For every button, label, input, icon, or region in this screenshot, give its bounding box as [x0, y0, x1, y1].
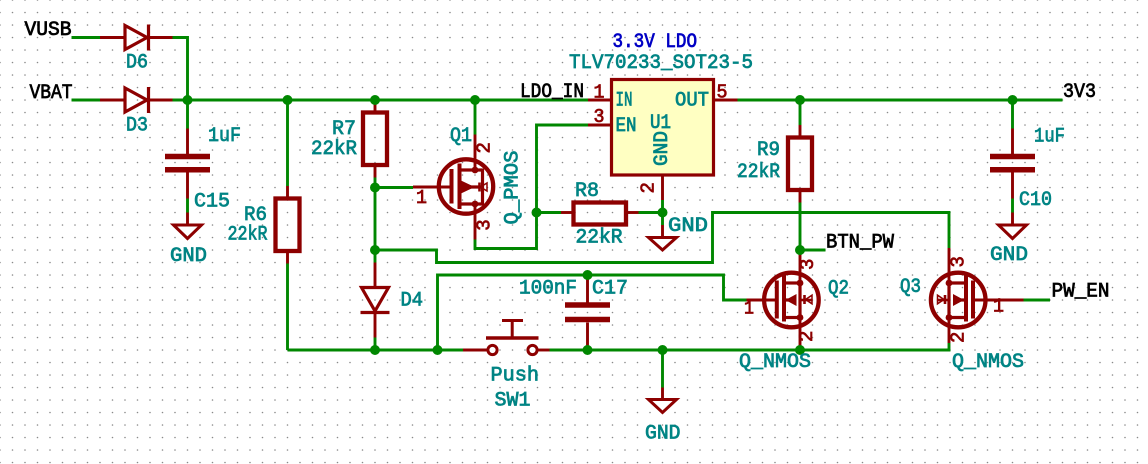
- svg-text:VUSB: VUSB: [25, 19, 72, 42]
- svg-text:BTN_PW: BTN_PW: [826, 232, 894, 255]
- svg-text:GND: GND: [990, 244, 1028, 267]
- svg-text:Q1: Q1: [450, 125, 472, 148]
- svg-text:1uF: 1uF: [208, 125, 241, 148]
- svg-text:D6: D6: [126, 52, 148, 75]
- svg-text:1uF: 1uF: [1034, 126, 1065, 149]
- svg-text:5: 5: [717, 82, 728, 104]
- svg-text:3V3: 3V3: [1063, 81, 1096, 104]
- svg-text:TLV70233_SOT23-5: TLV70233_SOT23-5: [569, 52, 753, 75]
- svg-text:100nF: 100nF: [519, 278, 577, 301]
- svg-text:1: 1: [594, 82, 605, 104]
- svg-text:EN: EN: [616, 115, 637, 138]
- svg-text:Q2: Q2: [828, 278, 849, 301]
- svg-text:1: 1: [416, 187, 427, 209]
- svg-text:2: 2: [474, 142, 496, 153]
- svg-text:R9: R9: [757, 139, 780, 162]
- svg-text:GND: GND: [645, 423, 681, 446]
- svg-text:Q_NMOS: Q_NMOS: [952, 351, 1024, 374]
- svg-text:2: 2: [948, 332, 970, 343]
- svg-text:3: 3: [948, 256, 970, 267]
- svg-text:22kR: 22kR: [311, 138, 357, 161]
- svg-text:1: 1: [744, 298, 754, 320]
- svg-text:GND: GND: [170, 245, 207, 268]
- svg-text:GND: GND: [668, 215, 708, 238]
- svg-text:2: 2: [638, 182, 660, 193]
- svg-text:Q_PMOS: Q_PMOS: [502, 151, 525, 225]
- svg-text:22kR: 22kR: [228, 224, 268, 247]
- svg-text:C10: C10: [1019, 189, 1052, 212]
- svg-text:3: 3: [797, 259, 819, 270]
- svg-text:Push: Push: [491, 365, 540, 388]
- svg-text:GND: GND: [651, 131, 674, 166]
- svg-text:LDO_IN: LDO_IN: [520, 81, 584, 104]
- svg-text:Q_NMOS: Q_NMOS: [739, 351, 811, 374]
- svg-text:D3: D3: [126, 115, 148, 138]
- svg-text:VBAT: VBAT: [30, 82, 73, 105]
- svg-text:Q3: Q3: [900, 276, 921, 299]
- svg-text:C15: C15: [194, 191, 230, 214]
- svg-text:22kR: 22kR: [576, 227, 623, 250]
- svg-text:3.3V LDO: 3.3V LDO: [613, 31, 698, 54]
- svg-text:D4: D4: [401, 290, 424, 313]
- svg-text:3: 3: [474, 219, 496, 230]
- svg-text:3: 3: [594, 106, 605, 128]
- svg-text:SW1: SW1: [495, 390, 531, 413]
- svg-text:1: 1: [993, 296, 1004, 318]
- svg-text:C17: C17: [592, 278, 628, 301]
- svg-text:IN: IN: [616, 90, 633, 113]
- svg-text:R8: R8: [575, 180, 599, 203]
- svg-text:2: 2: [796, 331, 818, 342]
- svg-text:OUT: OUT: [675, 90, 709, 113]
- svg-text:22kR: 22kR: [737, 161, 780, 184]
- svg-text:PW_EN: PW_EN: [1052, 281, 1110, 304]
